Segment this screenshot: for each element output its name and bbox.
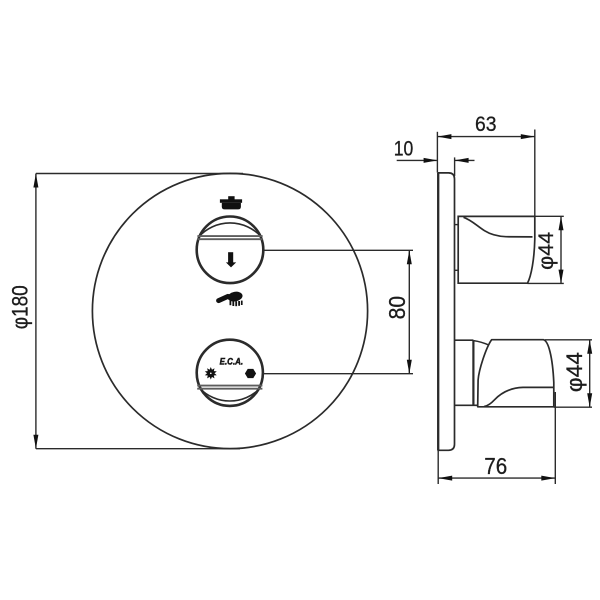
side bottom knob grip curve xyxy=(484,387,554,406)
dimension phi180 xyxy=(36,174,243,449)
hexagon icon xyxy=(245,369,256,378)
svg-text:76: 76 xyxy=(484,453,507,479)
bottom knob inner arc xyxy=(200,389,260,402)
svg-text:10: 10 xyxy=(394,137,414,160)
dimension phi44 bottom xyxy=(545,340,592,407)
dimension phi44 top xyxy=(528,216,564,283)
side top knob grip curve xyxy=(464,217,533,237)
side bottom knob collar xyxy=(455,340,478,405)
dimension 10 xyxy=(397,157,475,176)
side bottom knob collar curve xyxy=(474,341,489,346)
side top knob body xyxy=(458,216,535,283)
hand shower icon xyxy=(219,291,244,307)
dimension 80 xyxy=(263,250,413,373)
top knob outer circle xyxy=(197,217,264,284)
side bottom knob body xyxy=(478,340,554,407)
svg-text:φ44: φ44 xyxy=(534,232,558,270)
top knob inner arc xyxy=(199,223,261,237)
svg-text:80: 80 xyxy=(384,296,410,320)
top knob band xyxy=(197,236,262,239)
svg-text:φ44: φ44 xyxy=(562,352,587,392)
svg-text:φ180: φ180 xyxy=(8,285,33,329)
svg-text:E.C.A.: E.C.A. xyxy=(220,356,244,367)
bottom knob outer circle xyxy=(197,340,263,406)
dimension 76 xyxy=(438,392,555,484)
dimension 63 xyxy=(437,130,534,218)
side top knob collar ticks xyxy=(455,224,459,226)
bottom knob band xyxy=(197,386,262,389)
top knob down arrow xyxy=(226,252,236,267)
gear icon xyxy=(206,368,216,378)
svg-text:63: 63 xyxy=(475,112,497,136)
side view wall plate xyxy=(438,173,454,450)
bathtub icon xyxy=(220,196,242,209)
front plate circle phi180 xyxy=(92,173,367,448)
